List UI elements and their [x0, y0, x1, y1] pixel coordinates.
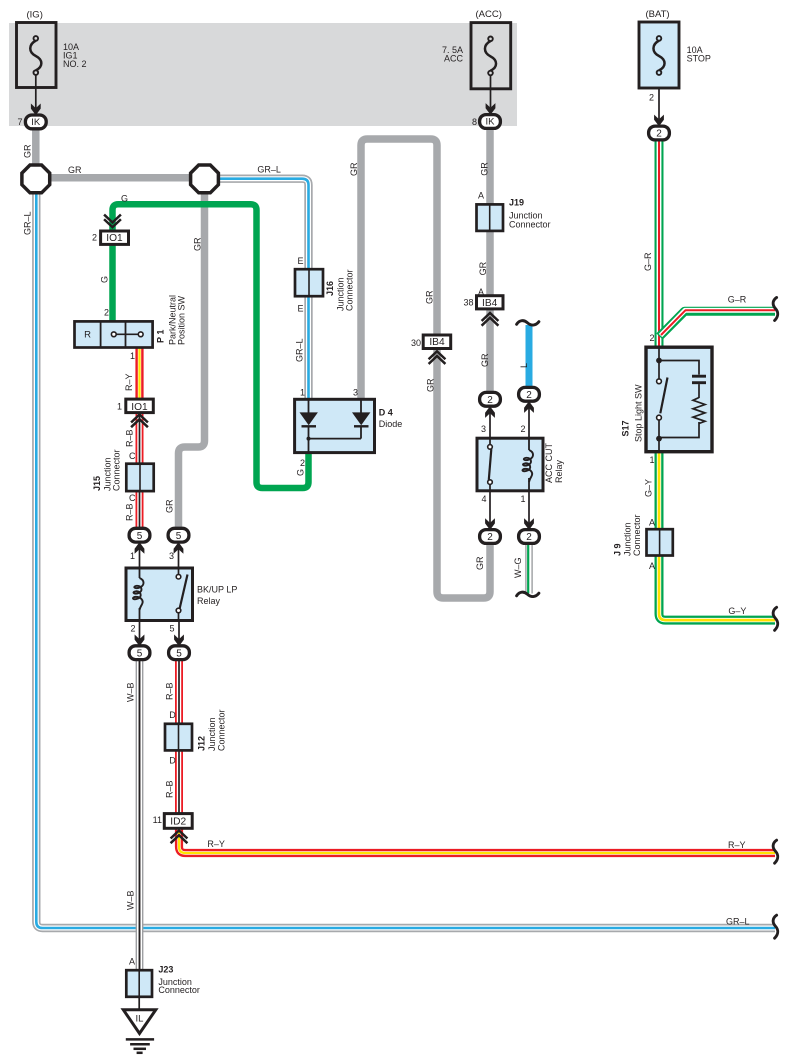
fuse IG1 NO.2 10A [17, 23, 57, 88]
svg-text:R–Y: R–Y [207, 839, 225, 849]
arrow up into BK/UP relay pin3 ellipse [174, 542, 184, 554]
junction connector J19 [477, 204, 504, 231]
switch [178, 568, 180, 575]
connector box IO1 pin1 [126, 399, 154, 413]
connector 2 below ACC CUT pin4 [480, 530, 501, 544]
junction connector J23 [126, 970, 152, 997]
break L top [517, 321, 539, 325]
wire GR-L from octagon J1 down left side and across bottom to right break [36, 190, 775, 928]
svg-text:G: G [296, 469, 306, 476]
svg-text:P 1: P 1 [156, 330, 166, 343]
svg-text:G–R: G–R [728, 294, 747, 304]
svg-text:Junction: Junction [207, 717, 217, 751]
svg-text:NO. 2: NO. 2 [63, 59, 87, 69]
pin line ACC CUT relay pin3 [489, 413, 491, 438]
connector box IB4 pin38 [477, 296, 504, 309]
fuse ACC 7.5A [471, 23, 511, 89]
connector box ID2 pin11 [164, 814, 192, 829]
svg-text:W–B: W–B [126, 682, 136, 702]
junction connector J12 [165, 724, 192, 751]
wire R-B from BK/UP relay pin5 ellipse through J12 to ID2 [175, 657, 183, 815]
node octagon J1 [22, 165, 50, 193]
svg-text:GR: GR [68, 165, 82, 175]
svg-text:GR: GR [425, 290, 435, 304]
svg-text:R: R [84, 330, 91, 341]
wire R-Y from P1 pin1 to IO1 [135, 346, 143, 401]
svg-text:5: 5 [176, 531, 182, 542]
pin line ACC CUT relay pin1 out [528, 491, 530, 523]
junction connector J16 [295, 269, 323, 296]
arrow into connector 2 (BAT) [654, 115, 664, 127]
arrow down into ellipse below BK/UP pin2 [135, 635, 145, 647]
junction connector J15 [126, 464, 153, 491]
wire GR octagon J2 down with jog to BK/UP relay ellipse [179, 186, 205, 530]
svg-text:(BAT): (BAT) [646, 9, 670, 20]
svg-text:STOP: STOP [687, 54, 711, 64]
svg-text:4: 4 [481, 494, 486, 504]
svg-text:E: E [297, 304, 303, 314]
chevron up below 38 IB4 [483, 313, 498, 325]
svg-text:GR–L: GR–L [257, 165, 281, 175]
svg-text:GR: GR [426, 378, 436, 392]
arrow up into ellipse above ACC CUT pin2 [524, 401, 534, 413]
wire L blue from break to ACC CUT relay pin2 ellipse [526, 325, 533, 390]
wire W-G from ACC CUT relay pin1 ellipse down to break [524, 540, 532, 594]
connector 2 below ACC CUT pin1 [519, 530, 540, 544]
svg-text:D: D [169, 756, 176, 766]
arrow into IK (ACC) [486, 103, 496, 115]
arrow down into ellipse below ACC CUT pin4 [485, 518, 495, 530]
svg-text:IO1: IO1 [131, 402, 148, 413]
pin line ACC CUT relay pin2 [528, 408, 530, 438]
svg-text:D 4: D 4 [379, 408, 393, 418]
break G-Y right [773, 607, 778, 630]
chevron up below IO1 (1) [132, 415, 147, 427]
svg-text:R–Y: R–Y [728, 840, 746, 850]
connector 5 right below BK/UP relay [169, 646, 190, 660]
svg-text:Junction: Junction [623, 522, 633, 556]
svg-text:5: 5 [169, 624, 174, 634]
svg-text:2: 2 [656, 129, 662, 140]
wire W-B from BK/UP relay pin2 ellipse down to J23 [136, 657, 144, 971]
svg-text:C: C [129, 493, 136, 503]
svg-text:Relay: Relay [554, 459, 564, 483]
svg-text:G: G [121, 194, 128, 204]
pin line BAT fuse to connector 2 [658, 75, 660, 120]
wire G-R from BAT fuse ellipse down to S17, with branch right to break [655, 137, 664, 349]
wire G-Y from S17 pin1 through J9, down and right to break [659, 450, 775, 620]
svg-text:A: A [478, 287, 484, 297]
svg-text:R–B: R–B [165, 780, 175, 798]
svg-text:ID2: ID2 [170, 816, 186, 827]
coil [528, 438, 530, 450]
svg-text:3: 3 [169, 551, 174, 561]
svg-text:7: 7 [17, 117, 22, 127]
svg-text:GR: GR [480, 162, 490, 176]
svg-text:Connector: Connector [345, 269, 355, 311]
svg-text:Connector: Connector [632, 514, 642, 556]
svg-text:1: 1 [130, 351, 135, 361]
svg-text:2: 2 [649, 93, 654, 103]
svg-text:2: 2 [526, 532, 532, 543]
svg-text:GR: GR [480, 353, 490, 367]
svg-text:R–B: R–B [125, 429, 135, 447]
svg-text:3: 3 [353, 388, 358, 398]
svg-text:8: 8 [472, 117, 477, 127]
svg-text:G–Y: G–Y [728, 606, 746, 616]
svg-text:D: D [169, 710, 176, 720]
wire R-Y from ID2 down and right to break [179, 827, 775, 853]
junction connector J9 [647, 529, 673, 555]
pin line BK/UP relay pin3 [178, 549, 180, 568]
svg-text:IO1: IO1 [106, 233, 123, 244]
svg-text:J12: J12 [197, 736, 207, 751]
svg-text:1: 1 [520, 494, 525, 504]
wire GR octagon J1 to octagon J2 [44, 174, 198, 182]
svg-text:30: 30 [411, 338, 421, 348]
svg-text:J23: J23 [158, 964, 173, 974]
svg-text:Relay: Relay [197, 596, 221, 606]
connector 2 above ACC CUT pin2 [519, 387, 540, 401]
connector 5 left below BK/UP relay [129, 646, 150, 660]
svg-text:1: 1 [130, 551, 135, 561]
svg-text:3: 3 [481, 424, 486, 434]
svg-text:2: 2 [104, 308, 109, 318]
svg-text:GR: GR [165, 499, 175, 513]
svg-text:A: A [649, 561, 655, 571]
wire GR from ACC fuse IK down to ellipse above ACC CUT relay [486, 126, 494, 394]
svg-text:J 9: J 9 [612, 543, 622, 556]
svg-text:GR–L: GR–L [295, 338, 305, 362]
svg-text:R–Y: R–Y [124, 373, 134, 391]
svg-text:GR–L: GR–L [23, 211, 33, 235]
svg-text:A: A [478, 191, 484, 201]
svg-text:E: E [297, 256, 303, 266]
svg-text:S17: S17 [621, 420, 631, 436]
arrow down into ellipse below BK/UP pin5 [174, 635, 184, 647]
svg-text:Connector: Connector [112, 449, 122, 491]
svg-text:G–Y: G–Y [644, 479, 654, 497]
svg-text:2: 2 [487, 395, 493, 406]
wire GR-L from octagon J2 right and down through J16 to D4 pin 1 [216, 179, 309, 400]
pin line BK/UP relay pin1 [139, 549, 141, 568]
pin line ACC CUT relay pin4 out [489, 491, 491, 523]
connector 2 above ACC CUT pin3 [480, 392, 501, 406]
svg-text:W–G: W–G [513, 557, 523, 578]
svg-text:W–B: W–B [126, 890, 136, 910]
svg-text:IB4: IB4 [482, 298, 498, 309]
svg-text:2: 2 [520, 424, 525, 434]
svg-text:GR: GR [349, 162, 359, 176]
svg-text:GR: GR [478, 261, 488, 275]
wire GR from IG fuse to octagon J1 [32, 126, 40, 170]
break GR-L right [773, 915, 778, 938]
svg-text:11: 11 [153, 815, 162, 825]
svg-text:5: 5 [137, 531, 143, 542]
svg-text:IB4: IB4 [429, 337, 445, 348]
wire G-R branch diagonal to right break [660, 310, 776, 336]
svg-text:BK/UP LP: BK/UP LP [197, 585, 237, 595]
svg-text:IL: IL [136, 1014, 144, 1025]
svg-text:R–B: R–B [165, 682, 175, 700]
arrow up into BK/UP relay pin1 ellipse [135, 542, 145, 554]
svg-text:2: 2 [649, 333, 654, 343]
svg-text:GR: GR [475, 556, 485, 570]
svg-text:J19: J19 [509, 197, 524, 207]
svg-text:ACC: ACC [444, 54, 464, 64]
svg-text:Connector: Connector [509, 220, 551, 230]
RC branch [659, 361, 699, 375]
fuse block gray band [9, 23, 517, 126]
wire G green from D4 pin2 down, left, up, left to IO1/P1 branch [113, 204, 309, 488]
break G-R right [773, 298, 778, 321]
svg-text:Diode: Diode [379, 419, 403, 429]
switch [489, 438, 491, 445]
svg-text:5: 5 [137, 648, 143, 659]
svg-text:L: L [519, 363, 529, 368]
pin line IG fuse to IK [35, 75, 37, 109]
svg-text:(ACC): (ACC) [476, 9, 502, 20]
svg-text:GR–L: GR–L [726, 917, 750, 927]
node octagon J2 [191, 165, 219, 193]
svg-text:C: C [129, 451, 136, 461]
svg-text:J15: J15 [92, 476, 102, 491]
svg-text:IK: IK [31, 117, 41, 128]
svg-text:2: 2 [130, 624, 135, 634]
svg-text:2: 2 [526, 390, 532, 401]
connector IK (ACC) [480, 115, 501, 129]
svg-text:1: 1 [300, 388, 305, 398]
svg-text:A: A [649, 518, 655, 528]
wire R-B from IO1 through J15 to BK/UP relay ellipse [136, 411, 144, 531]
svg-text:Connector: Connector [217, 709, 227, 751]
svg-text:J16: J16 [325, 281, 335, 296]
svg-text:ACC CUT: ACC CUT [544, 442, 554, 483]
svg-text:Stop Light SW: Stop Light SW [634, 384, 644, 442]
connector IK (IG) [25, 115, 46, 129]
connector 2 (BAT) [649, 126, 670, 140]
chevron up below 30 IB4 [430, 351, 445, 363]
coil [139, 568, 141, 578]
svg-text:R–B: R–B [125, 503, 135, 521]
connector box IB4 pin30 [423, 335, 451, 349]
pin line BK/UP relay pin5 out [178, 621, 180, 640]
pin line ACC fuse to IK [490, 75, 492, 108]
svg-text:Connector: Connector [158, 985, 200, 995]
svg-text:2: 2 [92, 233, 97, 243]
connector 5 left above BK/UP relay [129, 528, 150, 542]
chevron up below ID2 [172, 831, 187, 843]
arrow up into ellipse above ACC CUT pin3 [485, 406, 495, 418]
svg-text:38: 38 [463, 297, 473, 307]
svg-text:(IG): (IG) [27, 10, 43, 21]
pin line BK/UP relay pin2 out [139, 621, 141, 640]
svg-text:GR: GR [193, 237, 203, 251]
chevron down above IO1 (2) [105, 215, 120, 227]
svg-text:G: G [100, 276, 110, 283]
pin line J23 to ground [138, 997, 140, 1010]
svg-text:Position SW: Position SW [177, 295, 187, 345]
svg-text:G–R: G–R [643, 252, 653, 271]
connector box IO1 pin2 [101, 231, 129, 244]
fuse STOP 10A [639, 22, 679, 88]
svg-text:2: 2 [487, 532, 493, 543]
break R-Y right [773, 840, 778, 863]
wire GR big loop: ACC CUT relay pin4 down, left, up through 30 IB4, across top, down to D4 pin 3 [361, 139, 490, 598]
svg-text:2: 2 [300, 458, 305, 468]
svg-text:1: 1 [649, 455, 654, 465]
svg-text:5: 5 [176, 648, 182, 659]
connector 5 right above BK/UP relay [168, 528, 189, 542]
svg-text:GR: GR [23, 144, 33, 158]
arrow down into ellipse below ACC CUT pin1 [524, 518, 534, 530]
break W-G bottom [517, 592, 539, 596]
svg-text:IK: IK [486, 117, 496, 128]
arrow into IK (IG) [31, 104, 41, 116]
svg-text:1: 1 [117, 402, 122, 412]
svg-text:A: A [129, 957, 135, 967]
